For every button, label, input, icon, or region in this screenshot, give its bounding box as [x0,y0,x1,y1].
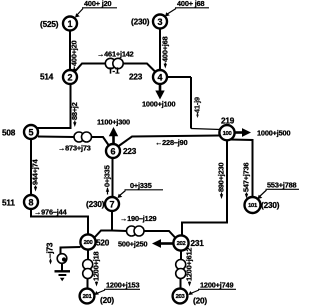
svg-text:→461+j142: →461+j142 [97,50,134,59]
flow label 1200+j18 on 200-201 with down arrow [92,251,101,286]
flow label 88+j2 on line 2-5 with down arrow [70,102,79,127]
svg-text:(525): (525) [40,20,59,29]
reactor coil [57,254,67,264]
svg-text:553+j788: 553+j788 [267,181,297,190]
load arrow up at bus 6 with label 1100+j300 [97,118,130,145]
wire bus5-bus8 [30,140,32,196]
wire junction through transformer to bus202 [112,230,127,233]
transformer 200-201 [83,260,93,279]
ground [55,271,71,281]
svg-text:7: 7 [109,199,114,209]
svg-text:1100+j300: 1100+j300 [97,118,130,127]
bus 1 [63,17,77,31]
svg-text:8: 8 [28,197,33,207]
bus 5 [24,125,38,139]
svg-text:88+j2: 88+j2 [70,102,79,120]
svg-text:→976–j44: →976–j44 [34,208,68,217]
bus 201 [80,289,95,304]
wire bus5 to transformer to bus6 [38,136,74,139]
svg-text:223: 223 [129,73,143,82]
svg-text:547+j736: 547+j736 [242,162,251,192]
wire bus200 to transformer [87,250,89,261]
flow label 890+j230 on line 100-202 with down arrow [217,162,226,199]
svg-text:(230): (230) [131,18,150,27]
svg-text:1000+j500: 1000+j500 [257,129,290,138]
svg-text:200: 200 [84,240,93,246]
svg-text:202: 202 [177,241,186,247]
svg-text:T-1: T-1 [108,67,120,76]
load arrow down at bus 4 with label 1000+j100 [142,85,175,109]
svg-text:(230): (230) [86,200,105,209]
svg-text:6: 6 [110,146,115,156]
bus 100 [219,125,234,140]
svg-text:1000+j100: 1000+j100 [142,100,175,109]
svg-text:223: 223 [123,147,137,156]
svg-text:101: 101 [248,203,258,209]
svg-text:0+j335: 0+j335 [130,181,152,190]
svg-text:4: 4 [157,72,162,82]
bus 6 [106,144,120,158]
wire junction to bus200 [95,231,113,238]
wire bus7 down to junction [111,212,113,231]
bus 203 [173,289,188,304]
svg-text:1: 1 [67,19,72,29]
svg-text:→190–j129: →190–j129 [120,214,156,223]
generator arrow into bus 203, label 1200+j749 underlined [189,281,237,296]
svg-text:231: 231 [191,239,205,248]
wire reactor to ground [61,264,63,271]
wire transformer to bus203 [180,279,182,290]
flow label 41-j9 on line 4-100 with down arrow [192,97,201,118]
svg-text:1200+j18: 1200+j18 [92,251,101,281]
bus 4 [153,70,167,84]
wire bus6-bus7 [112,158,114,197]
svg-text:2: 2 [67,72,72,82]
svg-text:1200+j612: 1200+j612 [185,248,194,281]
svg-text:203: 203 [176,294,186,300]
flow label 547+j736 on line 100-101 with down arrow [242,162,251,198]
generator arrow into bus 101, label 553+j788 underlined [258,181,300,200]
generator arrow into bus 201, label 1200+j153 underlined [95,281,141,296]
svg-text:944+j74: 944+j74 [31,158,40,185]
svg-text:1200+j749: 1200+j749 [200,281,233,290]
wire bus3-bus4 [159,28,161,70]
transformer 200-202 [127,226,145,236]
flow label 400+j20 on line 1-2 with down arrow [70,40,79,73]
bus 202 [173,235,188,250]
svg-text:400+j20: 400+j20 [70,40,79,66]
load arrow left at bus 202 with label 500+j250 [118,239,173,248]
flow label -j73 on shunt reactor with down arrow [46,242,55,264]
wire bus100-bus202 [182,141,227,235]
wire bus6-bus100 [118,136,220,147]
svg-text:520: 520 [96,239,110,248]
wire transformer to bus201 [87,279,89,290]
svg-text:1200+j153: 1200+j153 [106,281,139,290]
wire bus4-bus100 (dotted vertical) [167,77,221,130]
bus 3 [153,15,167,29]
transformer T-1 [105,58,123,68]
svg-text:→873+j73: →873+j73 [58,144,91,153]
bus 8 [24,195,38,209]
wire bus2-bus5 [38,85,71,129]
svg-text:5: 5 [28,127,33,137]
bus 7 [105,197,119,211]
load arrow right at bus 100 with label 1000+j500 [235,128,290,137]
generator arrow into bus 1, label 400+j20 underlined [75,0,117,18]
wire bus1-bus2 [69,30,71,70]
wire bus8-bus200 [31,210,88,235]
wire bus202 to transformer [180,251,182,261]
svg-text:(20): (20) [100,296,114,305]
svg-text:41-j9: 41-j9 [192,97,201,113]
flow label 400+j68 on line 3-4 with down arrow [161,36,170,68]
svg-text:508: 508 [2,129,16,138]
svg-text:511: 511 [2,199,15,208]
svg-text:–j73: –j73 [46,242,55,258]
flow label 1200+j612 on 202-203 with down arrow [185,248,194,287]
flow label 0+j335 on line 6-7 with up arrow [103,165,112,194]
svg-text:(20): (20) [193,297,207,306]
generator arrow into bus 3, label 400+j68 underlined [165,0,209,17]
svg-text:400+ j68: 400+ j68 [177,0,204,8]
transformer 5-6 [74,132,92,142]
wire bus2 to transformer T-1 to bus4 [75,64,106,73]
svg-text:100: 100 [223,131,232,137]
transformer 202-203 [176,260,186,279]
wire bus100-bus101 [230,140,253,197]
bus 200 [80,234,95,249]
svg-text:890+j230: 890+j230 [217,162,226,192]
svg-text:400+j68: 400+j68 [161,36,170,62]
svg-text:0+j335: 0+j335 [103,165,112,187]
svg-text:400+ j20: 400+ j20 [84,0,111,8]
shunt reactor wire from bus 200 [61,247,81,254]
svg-text:(230): (230) [261,201,280,210]
svg-text:3: 3 [157,17,162,27]
svg-text:514: 514 [40,73,54,82]
svg-text:500+j250: 500+j250 [118,240,148,249]
svg-text:201: 201 [83,294,93,300]
bus 2 [63,70,77,84]
flow label 944+j74 on line 5-8 with down arrow [31,158,40,191]
condenser arrow into bus 7, label 0+j335 underlined [118,181,164,198]
svg-text:←228–j90: ←228–j90 [155,138,188,147]
bus 101 [245,197,261,213]
